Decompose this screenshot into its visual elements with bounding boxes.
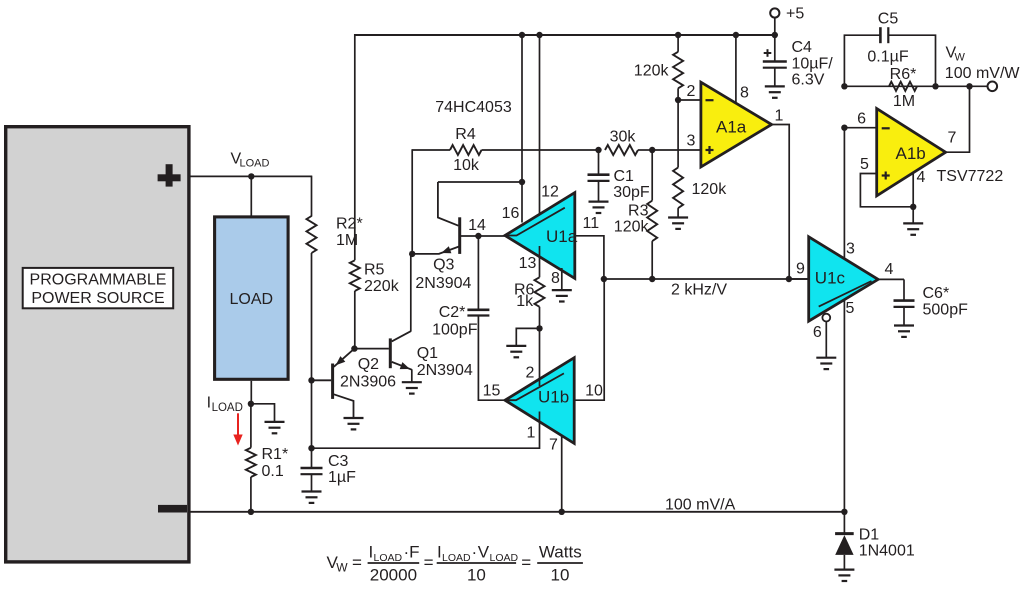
svg-text:12: 12 [541,184,559,201]
wire C5 right riser [888,35,935,86]
node VW left junction [841,83,847,89]
mux U1a triangle [505,193,575,279]
ground below A1b [903,223,923,234]
label pin 1 [527,424,536,441]
wire U1b pin1 down and left to C3 node [312,412,540,449]
mux U1c triangle [809,237,878,321]
node 2kHz junction U1a out [601,276,607,282]
label R6 1k [514,281,535,310]
formula equals 3 [521,553,531,572]
ground at Q2 collector [344,418,364,429]
svg-text:1: 1 [775,107,784,124]
resistor R4 10k body [450,145,482,155]
wire VW line [844,85,987,87]
diode D1 cathode bar [835,532,854,535]
wire pin2 node to A1a [678,99,701,101]
svg-text:7: 7 [549,436,558,453]
wire A1b pin4 down [912,173,914,207]
resistor R2* 1M body [307,216,317,253]
wire Q1 emitter to ground [411,369,413,381]
mux U1c pin6 bubble [822,314,830,322]
label pin 13 [519,255,537,272]
svg-text:220k: 220k [364,278,400,295]
wire ILOAD node to ground stub [251,404,275,422]
wire C6 stem [903,279,905,300]
wire R4 left vertical [411,149,413,254]
resistor R5 220k body [350,260,360,291]
capacitor C6* 500pF body [894,301,915,307]
svg-text:I: I [207,395,211,412]
node Q2 base junction [308,377,314,383]
svg-text:2N3904: 2N3904 [415,275,471,292]
label ILOAD [207,395,243,414]
svg-text:120k: 120k [634,62,670,79]
capacitor C3 1uF body [301,468,323,474]
svg-text:8: 8 [740,84,749,101]
wire Q1 collector up to Q3 emitter node [410,254,412,332]
svg-text:10: 10 [585,382,603,399]
svg-text:C6*: C6* [923,285,950,302]
label +5 [786,5,804,22]
programmable power source box [6,127,189,562]
ground at Q1 emitter [402,382,422,393]
svg-text:R2*: R2* [336,215,363,232]
capacitor C4 polarity plus [764,49,772,57]
label C5 [878,10,899,27]
formula fraction 2 denominator [467,566,486,585]
node pin8 top rail junction [733,32,739,38]
resistor R1* 0.1 body [246,448,256,477]
capacitor C1 30pF body [588,175,610,181]
label R4 10k [453,126,480,174]
wire C2 to U1b pin15 [478,316,505,401]
node R6 ground junction [536,325,542,331]
svg-text:R1*: R1* [262,446,289,463]
wire 2kHz/V line to U1c pin9 [604,278,809,280]
svg-text:C4: C4 [792,39,813,56]
label U1a [546,227,578,246]
wire rail node down to D1 [843,512,845,533]
wire C3 bottom plate to ground [311,474,313,491]
svg-text:U1c: U1c [815,268,846,287]
label R2* 1M [336,215,363,249]
wire U1a pin16 from top rail [521,35,523,223]
label TSV7722 [937,168,1004,185]
ground below 120k lower [668,218,688,229]
label pin 7 [549,436,558,453]
label 2 kHz/V [671,282,727,299]
svg-text:10k: 10k [453,157,480,174]
power source label box [23,268,174,308]
label U1c [815,268,846,287]
resistor 120k upper body [673,52,683,89]
node ILOAD [248,401,254,407]
label A1b pin 6 [857,110,866,127]
svg-text:10µF/: 10µF/ [792,55,834,72]
label A1a pin 3 [687,132,696,149]
svg-text:LOAD: LOAD [230,291,274,308]
svg-text:15: 15 [483,382,501,399]
label C4 10uF 6.3V [792,39,834,89]
wire top rail to 120k upper [677,35,679,52]
label U1c pin 5 [846,300,855,317]
label A1a pin 1 [775,107,784,124]
node R1-rail junction [248,509,254,515]
resistor 120k lower body [673,168,683,209]
svg-text:1µF: 1µF [328,469,356,486]
wire U1c pin6 to ground [825,322,827,358]
svg-text:5: 5 [860,156,869,173]
svg-text:5: 5 [846,300,855,317]
label U1c pin 9 [796,261,805,278]
resistor R6* 1M body [889,82,917,91]
transistor Q3 emitter with arrow [439,246,459,254]
svg-text:30pF: 30pF [613,184,650,201]
svg-text:10: 10 [551,566,570,585]
node pin16 top rail junction [519,32,525,38]
svg-text:100 mV/W: 100 mV/W [945,65,1021,82]
wire rail to C4 [774,35,776,62]
node pin12 top rail junction [536,32,542,38]
node VLOAD junction [248,173,254,179]
wire pin6 node down to U1c pin3 [843,128,845,512]
wire Q3 collector to pin16 line [438,181,522,183]
label U1c pin 6 [813,324,822,341]
ground at R6 node [506,346,526,357]
node Q3 collector pin16 junction [519,179,525,185]
wire C4 to ground [774,68,776,86]
formula fraction 3 bar [537,562,583,564]
wire +5 terminal to rail [774,18,776,35]
ground below U1c pin6 [816,358,836,369]
svg-text:=: = [424,553,434,572]
svg-text:PROGRAMMABLE: PROGRAMMABLE [30,272,167,289]
wire from VLOAD node down to LOAD box [250,176,252,216]
wire ILOAD node to R1 [250,404,252,448]
wire C5 left riser [844,35,880,86]
diode D1 body [835,535,853,555]
wire ground stub at R6 node [516,328,539,345]
label U1b [538,387,569,406]
wire U1a pin12 from top rail [539,35,541,227]
formula fraction 2 numerator [437,542,519,564]
svg-text:Q1: Q1 [417,345,438,362]
svg-text:2: 2 [687,83,696,100]
label 100 mV/W [945,65,1021,82]
wire R2 down to Q2 base node [311,253,313,380]
wire Q3 base node down to C2 [477,236,479,310]
op-amp A1b plus sign [882,172,890,180]
resistor R3 120k body [647,201,657,242]
svg-text:3: 3 [846,241,855,258]
svg-text:C3: C3 [328,453,349,470]
wire pin4 node to ground [912,207,914,223]
transistor Q1 emitter with arrow [392,362,412,370]
svg-text:1N4001: 1N4001 [859,543,915,560]
mux U1c wiper line [819,281,872,307]
svg-text:LOAD: LOAD [374,552,403,564]
formula VW term [327,553,349,575]
wire pin2 node down to 120k lower [677,100,679,168]
label VW [946,45,966,64]
wire R4 left lead [412,149,450,151]
svg-text:R4: R4 [455,126,476,143]
transistor Q1 2N3904 base bar [389,338,392,368]
node A1b pin4 pin5 ground junction [910,204,916,210]
svg-text:C5: C5 [878,10,899,27]
svg-text:R5: R5 [364,262,385,279]
terminal +5 [770,8,779,17]
label pin 2 [526,364,535,381]
svg-text:A1a: A1a [716,117,747,136]
svg-text:11: 11 [582,215,599,232]
wire C3 node to top plate [311,448,313,468]
label A1a [716,117,747,136]
node Q3 emitter junction [409,251,415,257]
transistor Q3 collector [438,182,459,226]
label R6* 1M [890,66,917,110]
svg-text:2N3904: 2N3904 [417,362,473,379]
label A1b pin 7 [948,129,957,146]
label R1* 0.1 [262,446,289,480]
svg-text:4: 4 [885,261,894,278]
svg-text:R3: R3 [628,202,649,219]
wire pin3 node to A1a [652,149,701,151]
node A1a pin3 junction [649,147,655,153]
resistor 30k body [605,145,638,155]
wire from LOAD box bottom to ILOAD node [250,381,252,404]
ground at ILOAD sense node [265,422,285,433]
node A1a pin2 junction [675,97,681,103]
svg-text:0.1: 0.1 [262,463,284,480]
node Q3 base C2 junction [475,233,481,239]
svg-text:TSV7722: TSV7722 [937,168,1004,185]
svg-text:14: 14 [468,217,486,234]
label 74HC4053 [435,99,512,116]
svg-text:Q2: Q2 [358,356,379,373]
ground at U1a pin8 [552,290,572,301]
label Q2 2N3906 [340,356,396,391]
svg-text:LOAD: LOAD [442,552,471,564]
wire U1a pin8 to ground [561,268,563,290]
svg-text:500pF: 500pF [923,302,969,319]
node A1b out junction [966,83,972,89]
node R3 2kHz junction [649,276,655,282]
wire bottom rail 100mV/A [190,511,844,513]
ground below C6 [894,326,914,337]
svg-text:9: 9 [796,261,805,278]
node C4 rail junction [772,32,778,38]
wire VLOAD corner down to R2 [311,176,313,217]
op-amp A1a minus sign [706,99,714,101]
op-amp A1a triangle [701,82,772,167]
wire pin3 node down to R3 [651,150,653,201]
wire top rail left corner down to R5 [354,34,356,260]
svg-text:6: 6 [813,324,822,341]
svg-text:POWER SOURCE: POWER SOURCE [31,290,164,307]
svg-text:D1: D1 [859,526,880,543]
label D1 1N4001 [859,526,915,559]
wire C1 stem [598,150,600,175]
svg-text:Watts: Watts [539,542,582,561]
label pin 16 [502,205,520,222]
wire R5 to Q2 emitter node [354,291,356,349]
wire U1a pin13 to R6 [539,246,541,277]
wire A1b output up to VW line [946,86,970,152]
transistor Q2 emitter with arrow [334,349,355,367]
wire R6 to ground node [539,307,541,329]
op-amp A1a plus sign [706,146,714,154]
node A1a out 2kHz junction [786,276,792,282]
load box [215,217,289,379]
wire D1 to ground [843,555,845,569]
label pin 14 [468,217,486,234]
wire Q2 base node down to C3 node [311,380,313,448]
wire C1 to ground [598,181,600,201]
label 0.1uF [867,48,908,65]
transistor Q2 2N3906 base bar [331,364,334,399]
wire top rail +5 distribution [355,34,775,36]
formula fraction 2 bar [437,562,516,564]
formula equals 2 [424,553,434,572]
mux U1b wiper line [505,373,564,400]
node Q2 emitter junction [351,345,357,351]
minus terminal of power source [158,505,187,513]
wire U1a pin11 output [575,236,604,279]
svg-text:U1b: U1b [538,387,569,406]
node U1b pin7 rail junction [559,509,565,515]
wire U1c pin9 [789,278,809,280]
label A1b pin 5 [860,156,869,173]
label VLOAD [231,151,270,170]
transistor Q3 2N3904 base bar [458,217,461,254]
wire 30k right lead [638,149,652,151]
formula fraction 1 bar [368,562,420,564]
svg-text:A1b: A1b [896,144,926,163]
ground below C1 [589,202,609,213]
label 100 mV/A [665,497,736,514]
ground below D1 [834,570,854,581]
capacitor C5 0.1uF body [880,27,888,43]
wire A1a pin8 from top rail [735,35,737,104]
svg-text:13: 13 [519,255,537,272]
svg-text:2N3906: 2N3906 [340,374,396,391]
wire Q3 emitter to junction [412,253,439,255]
svg-text:C2*: C2* [439,304,466,321]
svg-text:LOAD: LOAD [490,552,519,564]
svg-text:4: 4 [917,169,926,186]
wire 120k upper to pin2 node [677,88,679,100]
label 120k upper [634,62,670,79]
svg-text:Q3: Q3 [433,256,454,273]
svg-text:=: = [352,553,362,572]
node 120k top rail junction [675,32,681,38]
plus terminal of power source [158,164,181,186]
svg-text:1k: 1k [516,293,534,310]
node A1b pin6 junction [841,125,847,131]
svg-text:6.3V: 6.3V [792,71,825,88]
svg-text:·F: ·F [404,542,420,561]
svg-text:100pF: 100pF [432,321,478,338]
wire Q2 base [312,379,332,381]
label 120k lower [692,181,728,198]
formula equals 1 [352,553,362,572]
svg-text:6: 6 [857,110,866,127]
label pin 10 [585,382,603,399]
wire Q1 base from Q2 emitter node [354,348,389,350]
label U1c pin 4 [885,261,894,278]
formula fraction 1 numerator [369,542,420,564]
svg-text:W: W [955,52,966,64]
wire R4 right to 30k node [482,149,599,151]
svg-text:+5: +5 [786,5,804,22]
svg-text:120k: 120k [692,181,728,198]
capacitor C4 10uF body [763,62,787,68]
formula fraction 3 denominator [551,566,570,585]
svg-text:LOAD: LOAD [240,158,270,170]
wire U1b pin10 to 2kHz node [574,279,604,400]
label Q3 2N3904 [415,256,471,292]
formula fraction 3 numerator [539,542,582,561]
wire 120k lower to ground [677,208,679,217]
node C3 junction [308,445,314,451]
label C3 1uF [328,453,356,486]
svg-text:16: 16 [502,205,520,222]
label A1a pin 8 [740,84,749,101]
wire U1b pin2 from R6 ground node [539,328,541,386]
svg-text:7: 7 [948,129,957,146]
formula fraction 1 denominator [370,566,417,585]
svg-text:8: 8 [551,270,560,287]
label pin 8 [551,270,560,287]
label A1b [896,144,926,163]
label pin 11 [582,215,599,232]
mux U1b triangle [505,358,574,444]
wire R3 down to 2kHz wire [651,241,653,279]
wire A1a output down to 2kHz node [772,125,790,280]
capacitor C2* 100pF body [467,310,489,316]
label C6* 500pF [923,285,969,319]
wire Q3 base to U1a pin14 [460,235,505,237]
svg-text:0.1µF: 0.1µF [867,48,908,65]
wire C6 to ground [903,307,905,325]
svg-text:=: = [521,553,531,572]
svg-text:V: V [478,542,490,561]
svg-text:1M: 1M [893,93,915,110]
svg-text:W: W [336,561,348,575]
svg-text:100 mV/A: 100 mV/A [665,497,736,514]
svg-text:R6*: R6* [890,66,917,83]
terminal VW output [988,82,998,92]
label A1b pin 4 [917,169,926,186]
ground below C4 [765,86,785,97]
mux U1a wiper line [505,208,565,236]
label C2* 100pF [432,304,478,339]
op-amp A1b minus sign [882,127,890,129]
op-amp A1b triangle [877,109,946,196]
label C1 30pF [613,168,650,201]
node VW right junction [932,83,938,89]
wire A1b pin5 stub to ground node [860,174,913,207]
svg-text:120k: 120k [614,219,650,236]
svg-text:C1: C1 [614,168,635,185]
ground below C3 [302,492,322,503]
label R5 220k [364,262,400,296]
svg-text:LOAD: LOAD [212,402,243,414]
wire A1b pin6 [844,127,876,129]
svg-text:30k: 30k [610,129,637,146]
wire VLOAD from power source to R2 [190,175,312,177]
